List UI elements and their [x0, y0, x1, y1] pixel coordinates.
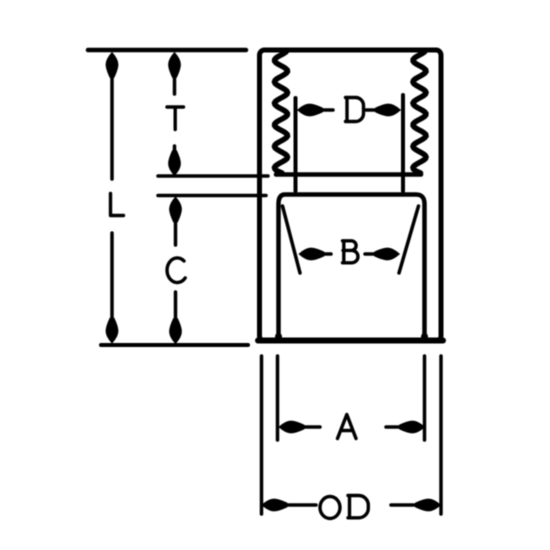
label D — [346, 98, 364, 122]
dimension B line — [303, 252, 395, 256]
bottom extension line — [101, 343, 248, 347]
label A — [338, 415, 357, 439]
arrowhead A left — [279, 421, 304, 433]
internal thread right crest squiggle — [413, 52, 426, 173]
ink blob socket right bottom joint — [421, 333, 428, 342]
socket shoulder and socket walls — [279, 195, 425, 342]
OD extension line right — [439, 356, 443, 514]
arrowhead OD right — [416, 499, 441, 511]
arrowhead B left — [299, 248, 324, 260]
dimension OD line — [264, 503, 436, 507]
arrowhead C top — [170, 197, 182, 222]
label B — [343, 241, 358, 263]
label L — [111, 194, 124, 216]
A extension line left — [276, 356, 280, 440]
socket left taper line — [283, 206, 301, 273]
A extension line right — [423, 356, 427, 440]
arrowhead L bottom — [106, 318, 118, 343]
fitting body outer outline — [260, 50, 442, 341]
arrowhead D right — [376, 104, 401, 116]
dimension C line — [174, 212, 178, 322]
arrowhead D left — [298, 104, 323, 116]
label O of OD — [320, 497, 340, 519]
label D of OD — [348, 495, 368, 517]
dimension L line lower — [110, 233, 114, 330]
socket-depth extension line — [158, 194, 266, 198]
socket right taper line — [399, 206, 419, 273]
top extension line — [88, 48, 246, 53]
dimension D line — [302, 108, 396, 112]
arrowhead OD left — [262, 499, 287, 511]
internal thread left crest squiggle — [275, 52, 288, 173]
thread bottom line — [276, 172, 421, 177]
dimension T line — [173, 60, 177, 156]
ink blob socket left bottom joint — [275, 333, 282, 342]
label T — [167, 107, 184, 130]
arrowhead A right — [400, 421, 425, 433]
arrowhead C bottom — [170, 319, 182, 344]
label C — [167, 258, 185, 283]
arrowhead T bottom — [169, 151, 181, 176]
arrowhead B right — [375, 248, 400, 260]
thread-depth extension line — [158, 174, 268, 178]
arrowhead L top — [106, 53, 118, 78]
arrowhead T top — [169, 53, 181, 78]
dimension L line upper — [110, 58, 114, 179]
fitting body bottom edge — [258, 338, 443, 344]
thread minor-diameter left line — [294, 98, 298, 191]
OD extension line left — [260, 356, 264, 514]
dimension A line — [283, 425, 420, 429]
thread minor-diameter right line — [401, 95, 405, 191]
